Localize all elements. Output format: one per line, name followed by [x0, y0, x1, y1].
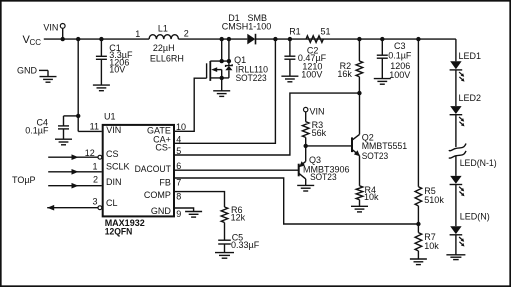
capacitor C1 [93, 39, 133, 91]
wire break to LED(N-1) [455, 156, 457, 176]
svg-text:6: 6 [176, 161, 181, 171]
svg-text:L1: L1 [158, 23, 168, 33]
svg-text:VIN: VIN [106, 125, 121, 135]
svg-text:SOT223: SOT223 [236, 73, 267, 83]
wire rail L1 to D1 [178, 38, 247, 40]
svg-text:22µH: 22µH [153, 43, 175, 53]
junction on rail x=418.4 [416, 37, 420, 41]
wire CS- pin5 [175, 93, 360, 155]
svg-text:LED2: LED2 [459, 93, 482, 103]
resistor R6 12k [221, 205, 245, 223]
wire GATE pin to Q1 gate [175, 78, 207, 131]
svg-text:10k: 10k [424, 241, 439, 251]
U1 pin labels [106, 125, 171, 216]
junction on rail x=221.7 [220, 37, 224, 41]
svg-text:LED(N-1): LED(N-1) [460, 158, 497, 168]
svg-text:100V: 100V [301, 69, 322, 79]
capacitor C4 [25, 116, 78, 145]
svg-text:CS: CS [106, 149, 119, 159]
svg-text:DACOUT: DACOUT [135, 164, 172, 174]
wire CA+ pin4 [175, 39, 276, 143]
svg-text:12k: 12k [231, 212, 246, 222]
svg-text:10V: 10V [109, 64, 125, 74]
wire SCLK pin1 [48, 169, 102, 175]
svg-text:SOT23: SOT23 [362, 151, 389, 161]
wire rail to R5 [417, 39, 419, 187]
LED LED(N) [450, 226, 465, 246]
svg-text:MMBT5551: MMBT5551 [362, 141, 408, 151]
svg-text:11: 11 [90, 121, 99, 131]
svg-text:12: 12 [85, 148, 95, 158]
U1 pin numbers [85, 121, 186, 219]
resistor R3 56k [302, 120, 326, 146]
junction on rail x=228.9 [227, 37, 231, 41]
svg-text:GND: GND [151, 206, 172, 216]
svg-text:7: 7 [176, 177, 181, 187]
wire rail D1 to LED string [256, 38, 456, 40]
svg-text:1: 1 [135, 29, 140, 39]
svg-text:1: 1 [92, 162, 97, 172]
svg-text:2: 2 [93, 174, 98, 184]
capacitor C3 [374, 39, 412, 84]
svg-text:CC: CC [30, 38, 42, 47]
wire LED2 to break [455, 115, 457, 147]
svg-text:SCLK: SCLK [106, 161, 130, 171]
resistor R7 10k [410, 232, 439, 264]
diode D1 CMSH1-100 [222, 13, 272, 45]
svg-text:CL: CL [106, 198, 118, 208]
svg-text:R1: R1 [289, 27, 301, 37]
chain break squiggles [449, 144, 466, 159]
svg-text:VIN: VIN [43, 23, 58, 33]
svg-text:VIN: VIN [310, 106, 325, 116]
inductor L1 [135, 23, 188, 63]
wire CL pin3 [47, 205, 97, 211]
capacitor C5 [215, 223, 260, 259]
junction on rail x=275.4 [273, 37, 277, 41]
svg-text:0.1µF: 0.1µF [25, 126, 49, 136]
svg-text:100V: 100V [389, 70, 410, 80]
svg-text:SOT23: SOT23 [310, 172, 337, 182]
junction on rail x=78.2 [76, 37, 80, 41]
resistor R4 10k [351, 185, 379, 212]
svg-text:9: 9 [176, 209, 181, 219]
svg-text:TOµP: TOµP [12, 175, 36, 185]
wire LED1 to LED2 [455, 70, 457, 106]
svg-text:LED(N): LED(N) [460, 212, 490, 222]
wire CS pin12 [48, 154, 97, 160]
svg-text:ELL6RH: ELL6RH [150, 54, 184, 64]
svg-text:10k: 10k [364, 192, 379, 202]
svg-text:3: 3 [92, 196, 97, 206]
junction on rail x=359.4 [357, 37, 361, 41]
op-amp U1 MAX1932 box [103, 125, 174, 216]
LED LED2 [450, 106, 465, 126]
wire FB pin7 to R5/R7 node [175, 178, 419, 224]
resistor R5 510k [415, 186, 444, 232]
LED LED(N-1) [450, 176, 465, 196]
svg-text:GND: GND [17, 66, 38, 76]
GND label and ground [17, 66, 57, 83]
pin 12 inverter circle [98, 155, 102, 159]
svg-text:Q3: Q3 [309, 155, 321, 165]
wire VCC to C4/pin11 [77, 39, 79, 131]
svg-text:FB: FB [159, 177, 171, 187]
node VCC label [23, 34, 42, 47]
junction on rail x=289.9 [288, 37, 292, 41]
transistor Q2 MMBT5551 [352, 93, 407, 186]
wire DACOUT pin6 to Q3 base [175, 169, 299, 171]
ground Q1 source [213, 78, 230, 97]
svg-text:510k: 510k [424, 195, 444, 205]
node VIN terminal mid [304, 106, 325, 121]
wire COMP pin8 to R6 [175, 192, 225, 207]
svg-text:2: 2 [184, 29, 189, 39]
svg-text:16k: 16k [337, 69, 352, 79]
transistor Q3 MMBT3906 [297, 146, 349, 191]
wire R3 node to Q2 base [306, 145, 352, 147]
svg-text:LED1: LED1 [459, 51, 482, 61]
svg-text:8: 8 [176, 191, 181, 201]
wire GND pin9 [175, 208, 202, 217]
pin 3 inverter circle [98, 206, 102, 210]
svg-text:COMP: COMP [144, 190, 171, 200]
LED LED1 [450, 61, 465, 81]
svg-text:56k: 56k [312, 128, 327, 138]
ground LED string [446, 235, 465, 260]
svg-text:12QFN: 12QFN [105, 227, 133, 237]
svg-text:U1: U1 [104, 112, 116, 122]
junction on rail x=382.3 [380, 37, 384, 41]
svg-text:CMSH1-100: CMSH1-100 [222, 22, 272, 32]
resistor R1 51 [289, 26, 330, 42]
wire LED(N-1) to LED(N) [455, 185, 457, 227]
junction on rail x=62.7 [61, 37, 65, 41]
wire VCC rail [44, 38, 149, 40]
svg-text:CS-: CS- [155, 142, 171, 152]
svg-text:51: 51 [321, 26, 331, 36]
svg-text:0.1µF: 0.1µF [388, 50, 412, 60]
svg-text:10: 10 [176, 122, 186, 132]
node VIN terminal top [43, 23, 65, 39]
transistor Q1 IRLL110 MOSFET [207, 39, 268, 83]
capacitor C2 [281, 39, 326, 82]
wire DIN pin2 [48, 183, 102, 189]
wire rail corner to LED1 [455, 39, 457, 61]
svg-text:DIN: DIN [106, 177, 122, 187]
junction on rail x=101.4 [99, 37, 103, 41]
resistor R2 16k [337, 39, 362, 93]
svg-text:0.33µF: 0.33µF [231, 240, 260, 250]
